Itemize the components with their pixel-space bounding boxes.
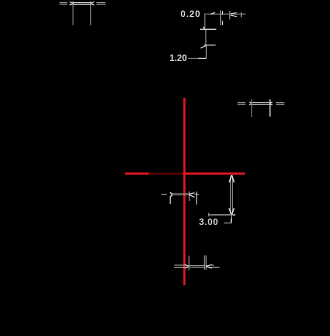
vertical dim 3.00 top arrowhead bbox=[229, 175, 231, 182]
dimension B right arrow upper barb bbox=[231, 12, 237, 15]
vertical dim 3.00 reference tick bbox=[208, 213, 210, 217]
dimension B feature vertical tall dark bbox=[220, 10, 222, 25]
dimension D right outer stub bbox=[196, 192, 198, 205]
dimension A left tails bbox=[60, 2, 68, 4]
dimension B feature vertical bright upper segment bbox=[222, 11, 224, 15]
dimension D right arrowhead bbox=[189, 193, 194, 194]
vertical dim 1.20 bottom barb bbox=[201, 46, 207, 49]
reticle vertical line bbox=[183, 98, 185, 285]
dimension C left tails bbox=[238, 102, 246, 104]
dimension A extension line left bbox=[72, 1, 74, 25]
dimension C right tails bbox=[276, 102, 284, 104]
dimension B right arrow lower barb bbox=[231, 15, 237, 17]
label 1.20 leader dash bright part bbox=[198, 57, 206, 59]
dimension B leader line bbox=[206, 13, 246, 15]
dimension A right arrowhead bbox=[91, 2, 95, 3]
vertical dim 1.20 dimension line bbox=[205, 30, 207, 45]
dimension B left arrow barb bbox=[211, 13, 215, 15]
dimension D double dimension line bbox=[173, 193, 190, 195]
dimension C extension line right bbox=[269, 99, 271, 116]
dimension C right arrowhead bbox=[270, 102, 272, 103]
vertical dim 1.20 bottom tail bbox=[205, 46, 207, 59]
dimension E extension line right pair bbox=[203, 255, 205, 269]
dimension B down leg barb bbox=[203, 27, 205, 29]
dimension A left arrowhead bbox=[70, 2, 74, 3]
vertical dim 1.20 bottom reference line bbox=[204, 44, 216, 46]
reticle horizontal line right bright segment bbox=[183, 173, 245, 175]
vertical dim 3.00 bottom arrowhead bbox=[229, 208, 232, 214]
dimension D left arrowhead bbox=[170, 192, 173, 194]
dimension D right tail bbox=[195, 193, 199, 195]
dimension E left arrowhead bbox=[185, 265, 189, 267]
dimension B feature vertical bright lower segment bbox=[222, 21, 224, 25]
svg-text:1.20: 1.20 bbox=[170, 53, 188, 63]
svg-text:3.00: 3.00 bbox=[199, 217, 219, 227]
dimension E left tails bbox=[174, 264, 185, 266]
label 1.20 leader dash dim part bbox=[188, 57, 198, 59]
dimension C extension line left bbox=[251, 99, 253, 117]
label 3.00 leader stem bright bbox=[230, 218, 232, 222]
label 3.00 leader dash bbox=[224, 222, 232, 224]
dimension B mid vertical tick bbox=[229, 11, 231, 20]
dimension E right arrowhead bbox=[206, 265, 212, 267]
dimension D left stub bbox=[169, 197, 171, 204]
dimension A right tails bbox=[96, 2, 105, 4]
reticle horizontal line dim middle segment bbox=[149, 173, 184, 175]
dimension D right extension bbox=[188, 191, 190, 201]
reticle horizontal line left bright dash bbox=[125, 173, 149, 175]
dimension B down leg from text bbox=[204, 13, 206, 28]
dimension D left tail bbox=[161, 193, 167, 195]
svg-text:0.20: 0.20 bbox=[181, 9, 201, 19]
vertical dim 1.20 top reference line bbox=[200, 28, 216, 30]
vertical dim 3.00 bottom reference line bbox=[209, 214, 236, 216]
label 3.00 leader stem dim bbox=[231, 216, 233, 219]
vertical dim 3.00 double dimension line bbox=[229, 177, 231, 214]
dimension C left arrowhead bbox=[249, 102, 251, 103]
dimension A extension line right bbox=[90, 1, 92, 25]
dimension B right tick bbox=[240, 12, 242, 17]
dimension C double dimension line bbox=[252, 102, 270, 104]
dimension E extension line left bbox=[188, 256, 190, 271]
dimension E double dimension line bbox=[189, 264, 205, 266]
dimension A double dimension line bbox=[73, 1, 91, 3]
vertical dim 3.00 reference line bright tip bbox=[233, 214, 235, 216]
dimension E right tails bbox=[211, 264, 214, 266]
